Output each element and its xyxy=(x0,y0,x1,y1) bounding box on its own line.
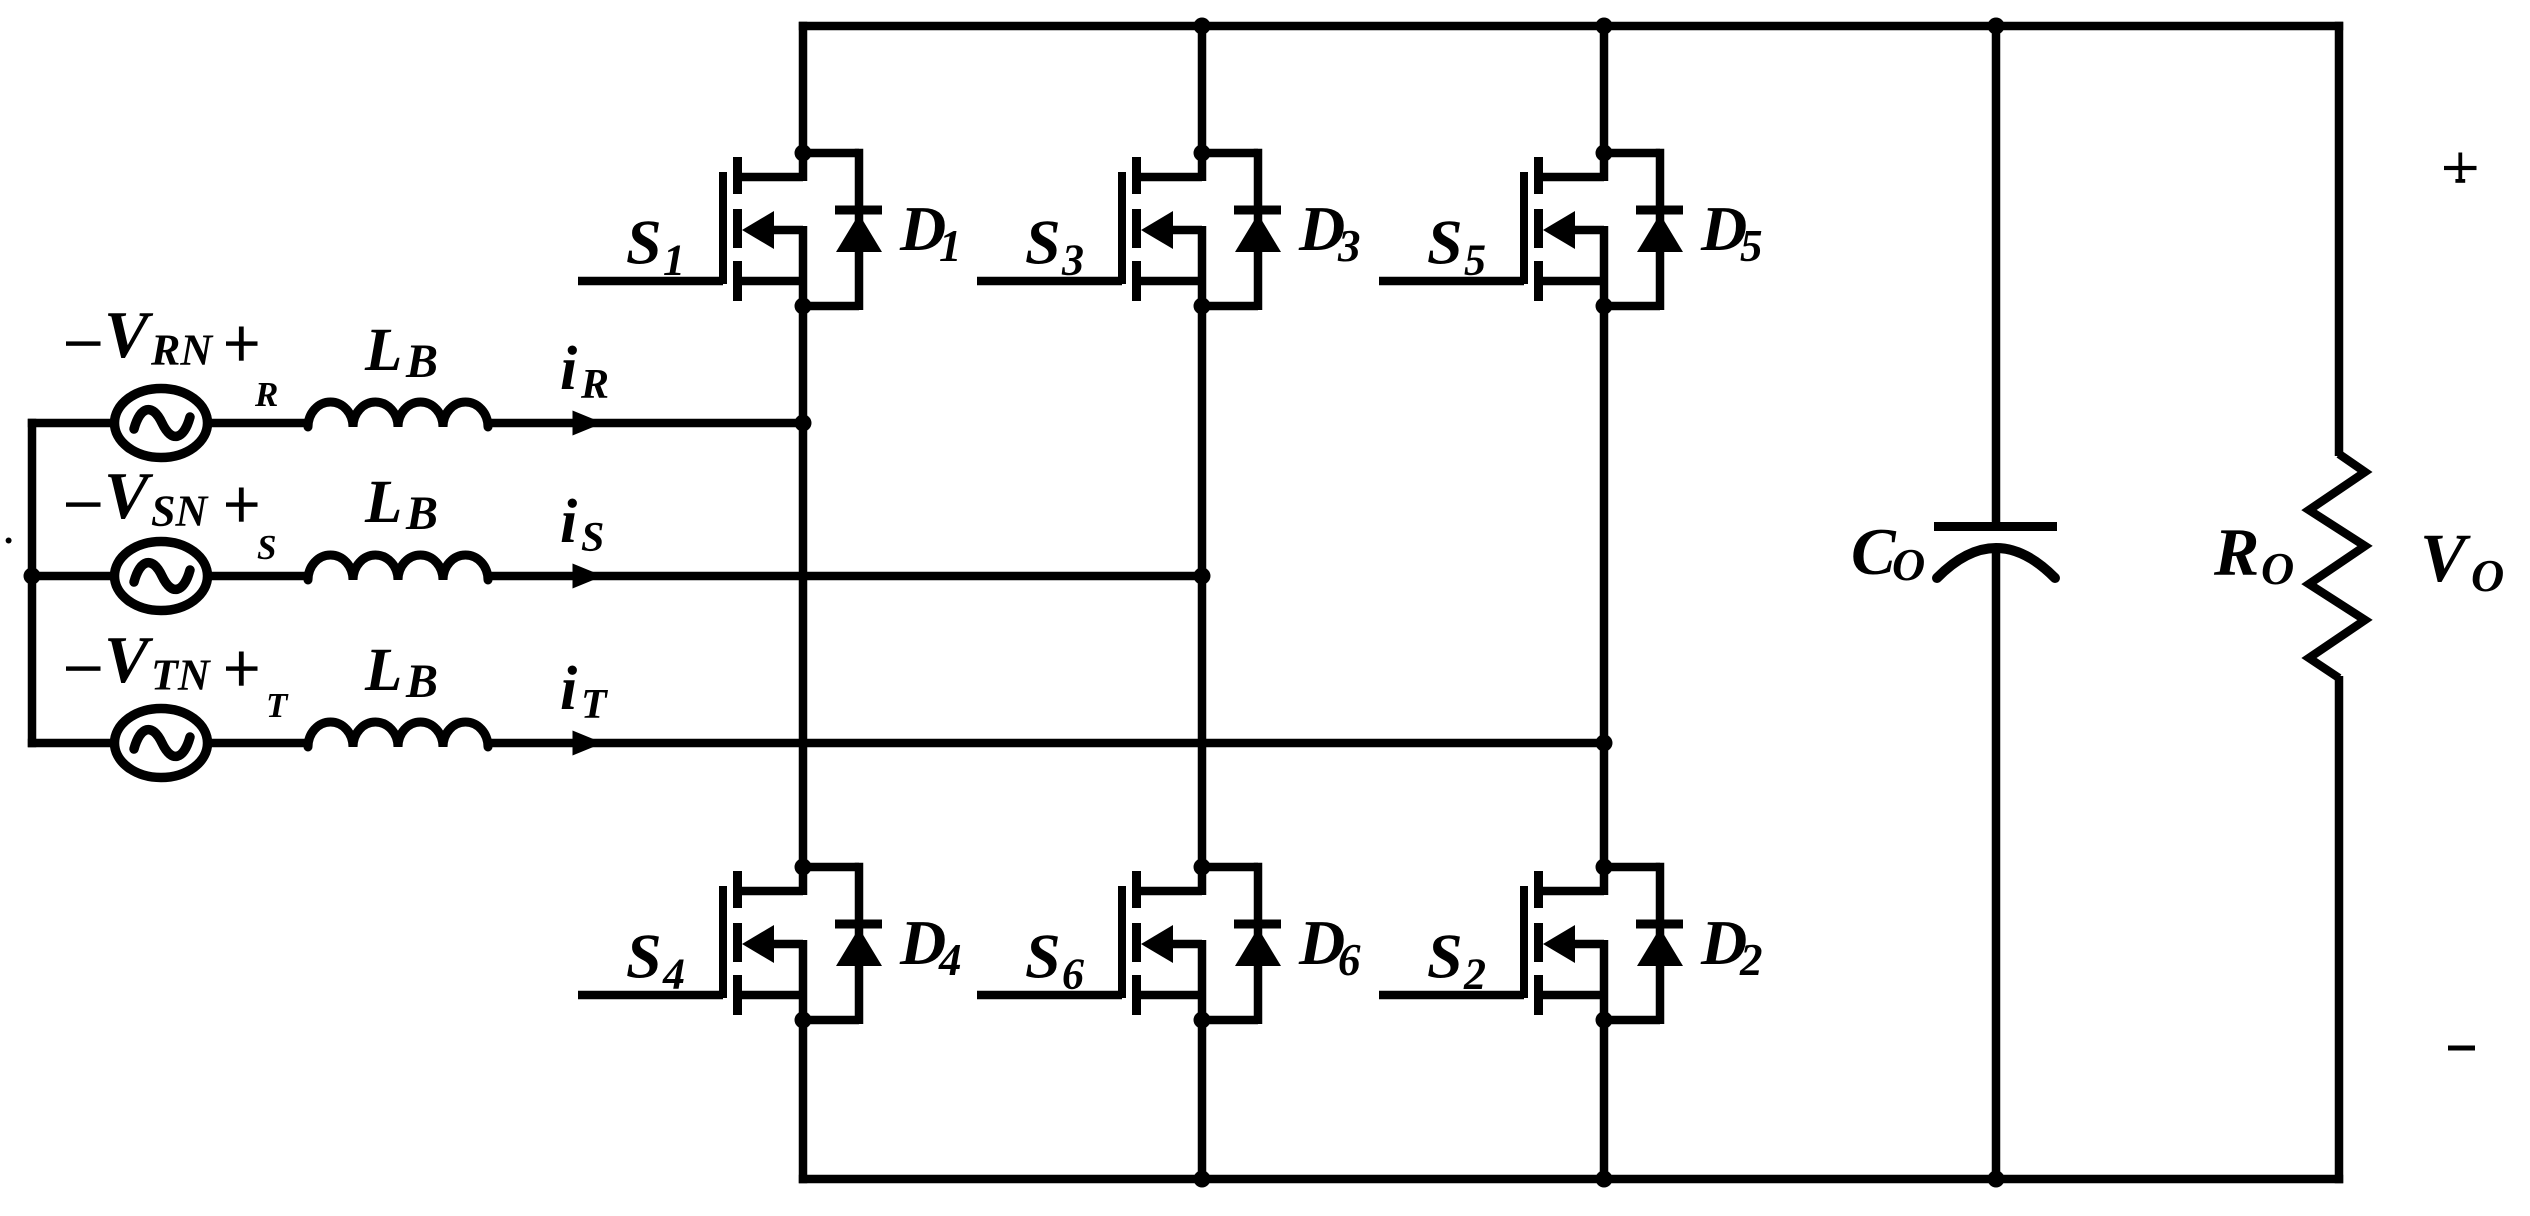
body arrow S4 xyxy=(742,925,774,963)
inductor LB phase S xyxy=(308,555,488,580)
wire capacitor bottom lead xyxy=(1992,552,2001,1183)
junction top bus xyxy=(1596,18,1613,35)
current arrow iS xyxy=(573,564,604,589)
node source S4 xyxy=(795,1012,812,1029)
wire phase R source to inductor xyxy=(208,419,312,428)
junction top bus capacitor xyxy=(1988,18,2005,35)
svg-text:i: i xyxy=(560,335,577,403)
wire leg 1 top bus to upper switch drain xyxy=(799,22,808,153)
wire phase S from rail to source xyxy=(28,572,112,581)
svg-text:V: V xyxy=(2420,520,2471,596)
svg-text:S: S xyxy=(1025,921,1061,992)
body arrow S1 xyxy=(742,211,774,249)
svg-text:S: S xyxy=(1427,921,1463,992)
diode D6 xyxy=(1234,924,1281,966)
diode D1 xyxy=(835,210,882,252)
body arrow S3 xyxy=(1141,211,1173,249)
wire leg 1 upper switch source to lower switch drain xyxy=(799,306,808,867)
diode D3 xyxy=(1234,210,1281,252)
current arrow iT xyxy=(573,731,604,756)
svg-text:V: V xyxy=(104,298,154,372)
node source S2 xyxy=(1596,1012,1613,1029)
node phase R to leg 1 xyxy=(795,415,812,432)
label current iR xyxy=(560,335,609,408)
wire gate lead S6 xyxy=(977,991,1122,1000)
wire drain to diode D3 xyxy=(1202,149,1258,158)
svg-text:S: S xyxy=(626,921,662,992)
capacitor CO xyxy=(1934,527,2057,579)
wire phase R from rail to source xyxy=(28,419,112,428)
transistor S2 xyxy=(1524,871,1543,1015)
wire top DC bus xyxy=(799,22,2343,31)
wire drain lead S6 xyxy=(1137,887,1203,896)
node drain S2 xyxy=(1596,859,1613,876)
diode D5 xyxy=(1636,210,1683,252)
label LB phase R xyxy=(364,317,438,388)
wire leg 3 lower switch source to bottom bus xyxy=(1600,1020,1609,1183)
wire drain lead S2 xyxy=(1539,887,1605,896)
svg-text:R: R xyxy=(254,375,278,414)
label D2 xyxy=(1700,907,1763,985)
svg-text:i: i xyxy=(560,488,577,556)
transistor S3 xyxy=(1122,157,1141,301)
wire drain to diode D5 xyxy=(1604,149,1660,158)
svg-text:RN: RN xyxy=(150,326,214,375)
wire drain lead S3 xyxy=(1137,173,1203,182)
svg-text:2: 2 xyxy=(1463,950,1486,999)
body arrow S6 xyxy=(1141,925,1173,963)
svg-text:B: B xyxy=(405,487,438,540)
label D1 xyxy=(899,193,962,271)
svg-text:4: 4 xyxy=(938,935,962,985)
svg-text:C: C xyxy=(1851,515,1897,589)
wire gate lead S1 xyxy=(578,277,723,286)
svg-text:T: T xyxy=(266,686,289,725)
wire drain lead S1 xyxy=(738,173,804,182)
label output minus xyxy=(2448,1046,2475,1051)
svg-text:B: B xyxy=(405,335,438,388)
svg-text:L: L xyxy=(364,317,402,384)
wire gate lead S2 xyxy=(1379,991,1524,1000)
label D5 xyxy=(1700,193,1763,271)
label D6 xyxy=(1298,907,1361,985)
node phase S to leg 2 xyxy=(1194,568,1211,585)
svg-text:V: V xyxy=(104,623,154,697)
wire leg 2 lower switch source to bottom bus xyxy=(1198,1020,1207,1183)
wire source lead S2 xyxy=(1539,991,1605,1000)
svg-text:1: 1 xyxy=(939,221,962,271)
node source S1 xyxy=(795,298,812,315)
label -VSN+ xyxy=(66,459,258,536)
junction bottom bus xyxy=(1194,1171,1211,1188)
wire drain to diode D1 xyxy=(803,149,859,158)
wire source to diode D1 xyxy=(803,302,859,311)
wire source lead S3 xyxy=(1137,277,1203,286)
node source S5 xyxy=(1596,298,1613,315)
wire phase S source to inductor xyxy=(208,572,312,581)
transistor S6 xyxy=(1122,871,1141,1015)
label S3 xyxy=(1025,207,1084,285)
label S6 xyxy=(1025,921,1084,999)
wire source to diode D5 xyxy=(1604,302,1660,311)
svg-text:5: 5 xyxy=(1740,221,1763,271)
svg-text:V: V xyxy=(104,459,154,533)
label S4 xyxy=(626,921,685,999)
node source S6 xyxy=(1194,1012,1211,1029)
svg-text:5: 5 xyxy=(1464,236,1486,285)
wire phase T from rail to source xyxy=(28,739,112,748)
wire drain to diode D4 xyxy=(803,863,859,872)
svg-text:R: R xyxy=(2213,514,2259,590)
stray dot mark xyxy=(6,538,12,544)
wire source to diode D4 xyxy=(803,1016,859,1025)
current arrow iR xyxy=(573,411,604,436)
wire drain lead S4 xyxy=(738,887,804,896)
svg-text:3: 3 xyxy=(1061,236,1084,285)
label S5 xyxy=(1427,207,1486,285)
label CO xyxy=(1851,515,1925,590)
label VO xyxy=(2420,520,2504,601)
svg-text:S: S xyxy=(257,528,276,567)
label RO xyxy=(2213,514,2294,594)
label output plus xyxy=(2444,153,2477,183)
wire source lead S1 xyxy=(738,277,804,286)
label S1 xyxy=(626,207,685,285)
label D3 xyxy=(1298,193,1361,271)
node neutral junction on S phase xyxy=(24,568,41,585)
wire phase T inductor to bridge leg xyxy=(486,739,1604,748)
svg-text:2: 2 xyxy=(1739,935,1763,985)
wire phase T source to inductor xyxy=(208,739,312,748)
svg-text:T: T xyxy=(581,682,609,728)
transistor S5 xyxy=(1524,157,1543,301)
AC source VRN xyxy=(115,389,208,458)
AC source VSN xyxy=(115,542,208,611)
wire bottom DC bus xyxy=(799,1175,2343,1184)
svg-text:S: S xyxy=(1025,207,1061,278)
node drain S6 xyxy=(1194,859,1211,876)
wire drain to diode D2 xyxy=(1604,863,1660,872)
svg-text:SN: SN xyxy=(151,487,209,536)
junction bottom bus capacitor xyxy=(1988,1171,2005,1188)
junction bottom bus xyxy=(1596,1171,1613,1188)
inductor LB phase R xyxy=(308,402,488,427)
wire leg 2 upper switch source to lower switch drain xyxy=(1198,306,1207,867)
body arrow S2 xyxy=(1543,925,1575,963)
label -VRN+ xyxy=(66,298,258,375)
svg-text:S: S xyxy=(1427,207,1463,278)
node drain S4 xyxy=(795,859,812,876)
svg-text:O: O xyxy=(2261,543,2294,594)
node source S3 xyxy=(1194,298,1211,315)
svg-text:6: 6 xyxy=(1062,950,1084,999)
wire phase R inductor to bridge leg xyxy=(486,419,803,428)
svg-text:3: 3 xyxy=(1337,221,1361,271)
wire leg 1 lower switch source to bottom bus xyxy=(799,1020,808,1183)
svg-text:S: S xyxy=(626,207,662,278)
label LB phase T xyxy=(364,637,438,708)
wire leg 2 top bus to upper switch drain xyxy=(1198,22,1207,153)
label D4 xyxy=(899,907,962,985)
transistor S1 xyxy=(723,157,742,301)
label S2 xyxy=(1427,921,1486,999)
junction top bus xyxy=(1194,18,1211,35)
svg-text:O: O xyxy=(2471,550,2504,601)
wire resistor top lead xyxy=(2335,22,2344,456)
transistor S4 xyxy=(723,871,742,1015)
node drain S3 xyxy=(1194,145,1211,162)
wire left neutral rail xyxy=(28,419,37,747)
label LB phase S xyxy=(364,469,438,540)
wire gate lead S3 xyxy=(977,277,1122,286)
svg-text:R: R xyxy=(580,362,609,408)
svg-text:B: B xyxy=(405,655,438,708)
svg-text:L: L xyxy=(364,637,402,704)
resistor RO xyxy=(2309,454,2365,678)
wire source to diode D3 xyxy=(1202,302,1258,311)
wire source to diode D6 xyxy=(1202,1016,1258,1025)
inductor LB phase T xyxy=(308,722,488,747)
wire drain lead S5 xyxy=(1539,173,1605,182)
svg-text:4: 4 xyxy=(662,950,685,999)
node drain S1 xyxy=(795,145,812,162)
wire capacitor top lead xyxy=(1992,22,2001,531)
svg-text:S: S xyxy=(581,515,604,561)
label -VTN+ xyxy=(66,623,258,700)
wire gate lead S5 xyxy=(1379,277,1524,286)
wire gate lead S4 xyxy=(578,991,723,1000)
wire leg 3 top bus to upper switch drain xyxy=(1600,22,1609,153)
svg-text:L: L xyxy=(364,469,402,536)
svg-text:O: O xyxy=(1892,539,1925,590)
wire source lead S4 xyxy=(738,991,804,1000)
wire drain to diode D6 xyxy=(1202,863,1258,872)
svg-text:6: 6 xyxy=(1338,935,1361,985)
node drain S5 xyxy=(1596,145,1613,162)
svg-text:1: 1 xyxy=(663,236,685,285)
wire source lead S6 xyxy=(1137,991,1203,1000)
svg-text:TN: TN xyxy=(151,651,212,700)
node phase T to leg 3 xyxy=(1596,735,1613,752)
label current iS xyxy=(560,488,604,561)
wire source lead S5 xyxy=(1539,277,1605,286)
body arrow S5 xyxy=(1543,211,1575,249)
wire source to diode D2 xyxy=(1604,1016,1660,1025)
diode D2 xyxy=(1636,924,1683,966)
wire phase S inductor to bridge leg xyxy=(486,572,1202,581)
wire leg 3 upper switch source to lower switch drain xyxy=(1600,306,1609,867)
label current iT xyxy=(560,655,609,728)
svg-text:i: i xyxy=(560,655,577,723)
AC source VTN xyxy=(115,709,208,778)
wire resistor bottom lead xyxy=(2335,676,2344,1183)
diode D4 xyxy=(835,924,882,966)
